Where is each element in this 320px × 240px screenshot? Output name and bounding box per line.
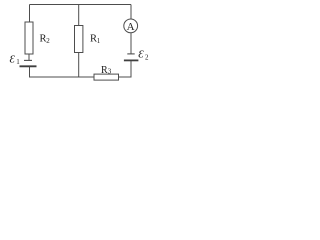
svg-text:1: 1 xyxy=(16,58,20,66)
wire top rail xyxy=(30,4,132,6)
wire battery e1 to bottom rail xyxy=(29,67,31,78)
wire middle branch lower xyxy=(78,53,80,78)
resistor R3 xyxy=(94,74,119,80)
wire left branch upper xyxy=(29,5,31,23)
svg-text:3: 3 xyxy=(108,67,112,75)
label epsilon2 xyxy=(138,49,149,62)
label R3 xyxy=(101,65,112,76)
svg-text:A: A xyxy=(127,21,135,33)
svg-text:2: 2 xyxy=(145,53,149,61)
wire middle branch upper xyxy=(78,5,80,26)
resistor R1 xyxy=(75,26,83,53)
label epsilon1 xyxy=(10,54,21,67)
svg-text:2: 2 xyxy=(46,37,50,45)
svg-text:1: 1 xyxy=(97,37,101,45)
wire R2 to battery e1 xyxy=(28,54,30,60)
wire bottom rail left xyxy=(30,76,95,78)
resistor R2 xyxy=(25,22,33,54)
svg-text:Ɛ: Ɛ xyxy=(138,49,144,61)
battery E2 xyxy=(124,54,138,61)
battery E1 xyxy=(20,60,37,66)
ammeter A xyxy=(124,19,138,33)
label R1 xyxy=(90,34,101,45)
wire battery e2 to bottom rail xyxy=(130,61,132,78)
label R2 xyxy=(40,33,51,45)
wire ammeter to battery e2 xyxy=(130,33,132,54)
wire right branch upper xyxy=(130,5,132,20)
svg-text:Ɛ: Ɛ xyxy=(10,54,16,66)
wire bottom rail right xyxy=(119,76,132,78)
